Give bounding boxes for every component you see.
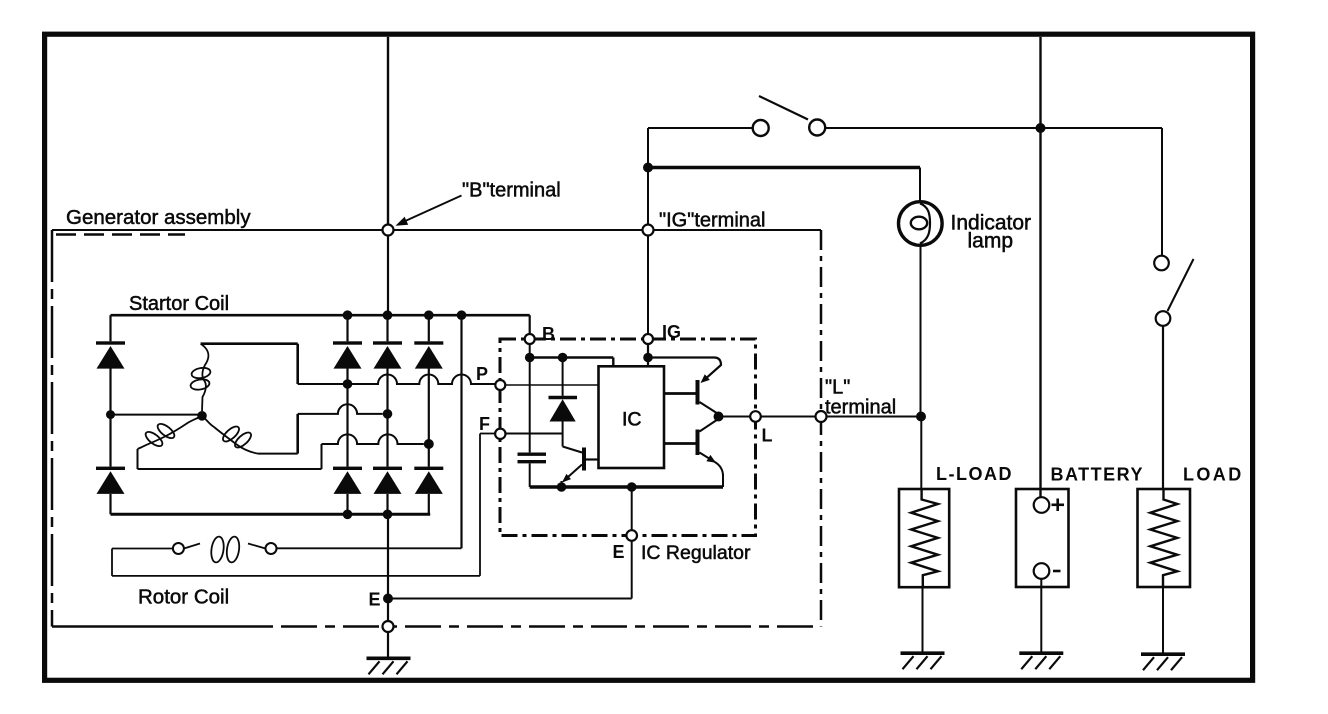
svg-text:Rotor Coil: Rotor Coil bbox=[138, 586, 229, 609]
svg-text:terminal: terminal bbox=[825, 397, 896, 419]
svg-text:"B"terminal: "B"terminal bbox=[462, 180, 561, 202]
svg-text:IG: IG bbox=[662, 322, 681, 342]
svg-text:"IG"terminal: "IG"terminal bbox=[659, 210, 765, 232]
svg-text:BATTERY: BATTERY bbox=[1051, 465, 1145, 485]
svg-text:E: E bbox=[369, 590, 381, 610]
svg-text:Startor Coil: Startor Coil bbox=[129, 293, 229, 315]
svg-text:"L": "L" bbox=[825, 377, 850, 399]
svg-text:lamp: lamp bbox=[968, 230, 1014, 253]
svg-text:L-LOAD: L-LOAD bbox=[936, 464, 1013, 484]
svg-text:F: F bbox=[479, 414, 490, 434]
svg-text:L: L bbox=[762, 426, 773, 446]
svg-text:LOAD: LOAD bbox=[1183, 465, 1244, 485]
svg-text:E: E bbox=[613, 542, 625, 562]
svg-text:P: P bbox=[476, 364, 488, 384]
svg-text:IC Regulator: IC Regulator bbox=[641, 542, 751, 564]
svg-text:B: B bbox=[542, 324, 555, 344]
svg-text:IC: IC bbox=[622, 409, 642, 431]
svg-text:Generator assembly: Generator assembly bbox=[66, 206, 251, 229]
